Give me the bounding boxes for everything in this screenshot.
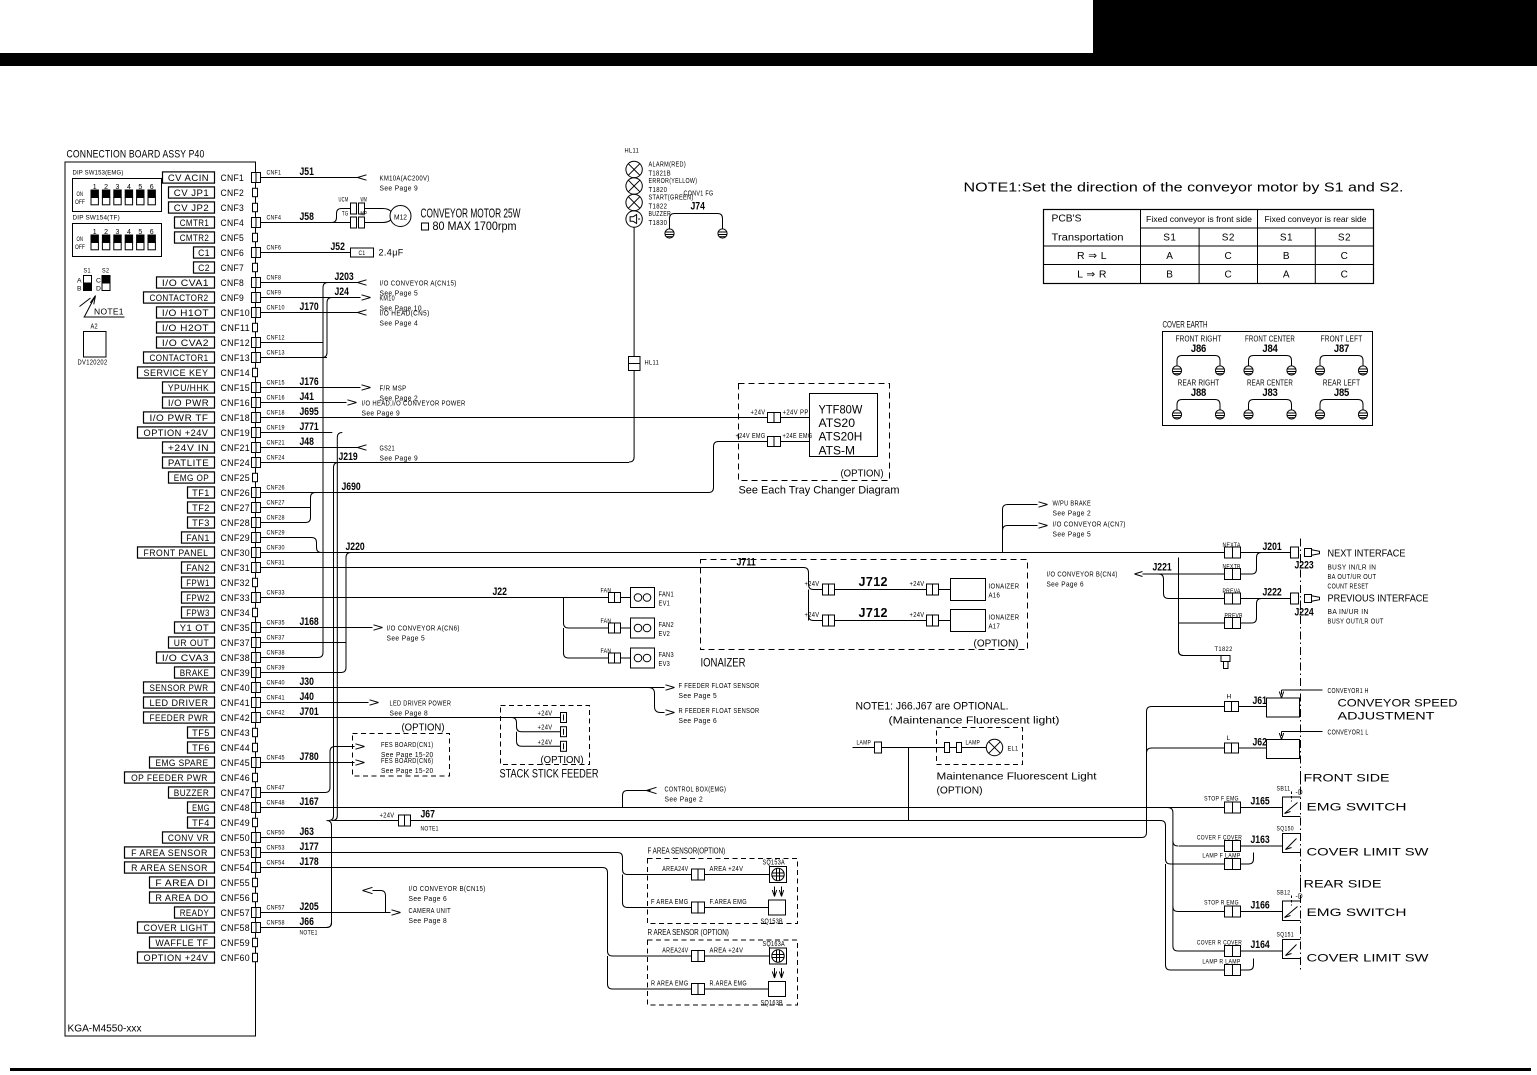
svg-text:FES BOARD(CN6): FES BOARD(CN6) xyxy=(381,758,434,765)
svg-text:EMG: EMG xyxy=(192,803,210,813)
svg-text:(OPTION): (OPTION) xyxy=(402,722,445,734)
svg-text:+24V IN: +24V IN xyxy=(168,443,209,453)
svg-text:I/O PWR: I/O PWR xyxy=(168,398,209,408)
svg-text:CONVEYOR SPEED: CONVEYOR SPEED xyxy=(1338,698,1458,710)
svg-text:CNF21: CNF21 xyxy=(221,443,251,454)
svg-text:KGA-M4550-xxx: KGA-M4550-xxx xyxy=(68,1024,142,1035)
svg-text:FPW2: FPW2 xyxy=(186,593,210,603)
svg-text:KM10A(AC200V): KM10A(AC200V) xyxy=(380,174,430,183)
svg-text:SB12: SB12 xyxy=(1277,890,1291,897)
svg-text:J86: J86 xyxy=(1191,343,1206,355)
svg-text:B: B xyxy=(1283,251,1290,262)
svg-text:See Page 9: See Page 9 xyxy=(362,409,401,418)
svg-text:CNF39: CNF39 xyxy=(221,668,251,679)
svg-text:CNF32: CNF32 xyxy=(221,578,251,589)
svg-text:CNF12: CNF12 xyxy=(267,335,285,342)
svg-text:ON: ON xyxy=(77,236,84,243)
svg-text:CNF13: CNF13 xyxy=(267,350,285,357)
svg-text:J85: J85 xyxy=(1334,387,1349,399)
svg-text:CNF15: CNF15 xyxy=(221,383,251,394)
svg-text:J67: J67 xyxy=(421,809,435,821)
svg-text:M12: M12 xyxy=(394,215,407,222)
svg-text:CNF16: CNF16 xyxy=(221,398,251,409)
svg-text:A16: A16 xyxy=(989,591,1001,600)
svg-text:CNF57: CNF57 xyxy=(267,905,285,912)
svg-text:R AREA EMG: R AREA EMG xyxy=(651,981,689,988)
svg-text:TF6: TF6 xyxy=(192,743,210,753)
svg-text:NOTE1: J66.J67 are OPTIONAL.: NOTE1: J66.J67 are OPTIONAL. xyxy=(856,701,1009,713)
svg-text:J41: J41 xyxy=(300,391,314,403)
svg-text:I/O PWR TF: I/O PWR TF xyxy=(150,413,209,423)
svg-text:CNF57: CNF57 xyxy=(221,908,251,919)
svg-text:SQ163A: SQ163A xyxy=(763,941,786,948)
svg-text:+24V EMG: +24V EMG xyxy=(736,433,766,440)
svg-text:CNF37: CNF37 xyxy=(267,635,285,642)
svg-text:I/O CONVEYOR B(CN15): I/O CONVEYOR B(CN15) xyxy=(409,884,486,893)
svg-text:CAMERA UNIT: CAMERA UNIT xyxy=(409,906,452,915)
svg-text:J712: J712 xyxy=(859,606,888,620)
svg-text:CNF34: CNF34 xyxy=(221,608,251,619)
svg-text:J40: J40 xyxy=(300,691,314,703)
svg-text:See Page 8: See Page 8 xyxy=(409,916,448,925)
svg-text:B: B xyxy=(77,286,82,293)
svg-text:CNF18: CNF18 xyxy=(267,410,285,417)
svg-text:CNF11: CNF11 xyxy=(221,323,251,334)
svg-text:CNF59: CNF59 xyxy=(221,938,251,949)
svg-text:CNF47: CNF47 xyxy=(267,785,285,792)
svg-text:A: A xyxy=(1283,270,1290,281)
svg-text:T1820: T1820 xyxy=(649,187,668,194)
svg-text:NEXT INTERFACE: NEXT INTERFACE xyxy=(1328,548,1406,560)
svg-text:CNF41: CNF41 xyxy=(267,695,285,702)
svg-text:UR OUT: UR OUT xyxy=(174,638,210,648)
svg-text:J201: J201 xyxy=(1263,541,1282,553)
svg-text:CNF28: CNF28 xyxy=(267,515,285,522)
svg-text:CNF8: CNF8 xyxy=(267,275,282,282)
svg-text:A2: A2 xyxy=(91,324,99,331)
svg-text:FAN1: FAN1 xyxy=(659,590,674,599)
svg-text:AREA24V: AREA24V xyxy=(662,948,688,955)
svg-text:F.AREA EMG: F.AREA EMG xyxy=(710,899,748,906)
svg-text:H: H xyxy=(1227,694,1232,701)
svg-text:BUSY IN/LR IN: BUSY IN/LR IN xyxy=(1328,565,1377,572)
svg-text:CNF40: CNF40 xyxy=(221,683,251,694)
svg-text:J205: J205 xyxy=(300,901,319,913)
svg-text:J221: J221 xyxy=(1153,562,1172,574)
svg-text:CV JP1: CV JP1 xyxy=(174,188,209,198)
svg-text:J167: J167 xyxy=(300,796,319,808)
svg-text:R.AREA EMG: R.AREA EMG xyxy=(710,981,748,988)
svg-text:Y1 OT: Y1 OT xyxy=(180,623,210,633)
svg-text:J712: J712 xyxy=(859,575,888,589)
svg-text:T1822: T1822 xyxy=(1215,646,1233,653)
svg-text:J63: J63 xyxy=(300,826,314,838)
svg-text:WM: WM xyxy=(361,197,368,204)
svg-text:CONVEYOR1 L: CONVEYOR1 L xyxy=(1328,730,1369,737)
svg-text:CNF12: CNF12 xyxy=(221,338,251,349)
svg-text:+24V: +24V xyxy=(751,410,766,417)
svg-text:READY: READY xyxy=(180,908,210,918)
svg-text:TG: TG xyxy=(342,211,349,218)
svg-text:CMTR1: CMTR1 xyxy=(180,218,210,228)
svg-text:FEEDER PWR: FEEDER PWR xyxy=(150,713,209,723)
svg-text:J62: J62 xyxy=(1253,737,1267,749)
svg-text:IONAIZER: IONAIZER xyxy=(989,613,1020,622)
svg-text:OPTION +24V: OPTION +24V xyxy=(144,428,209,438)
svg-text:LED DRIVER: LED DRIVER xyxy=(150,698,209,708)
svg-text:CNF48: CNF48 xyxy=(267,800,285,807)
svg-text:-D: -D xyxy=(1296,894,1304,901)
svg-text:CV JP2: CV JP2 xyxy=(174,203,209,213)
svg-text:CNF18: CNF18 xyxy=(221,413,251,424)
svg-text:CNF42: CNF42 xyxy=(267,710,285,717)
svg-text:J222: J222 xyxy=(1263,587,1282,599)
svg-text:CNF50: CNF50 xyxy=(267,830,285,837)
svg-text:CNF47: CNF47 xyxy=(221,788,251,799)
svg-text:COVER LIMIT SW: COVER LIMIT SW xyxy=(1307,847,1430,859)
svg-text:EMG SPARE: EMG SPARE xyxy=(155,758,208,768)
svg-text:FAN2: FAN2 xyxy=(186,563,210,573)
svg-text:IONAIZER: IONAIZER xyxy=(989,582,1020,591)
svg-text:J224: J224 xyxy=(1295,607,1315,619)
svg-text:CNF27: CNF27 xyxy=(267,500,285,507)
svg-text:CNF25: CNF25 xyxy=(221,473,251,484)
svg-text:J51: J51 xyxy=(300,166,314,178)
svg-text:AREA +24V: AREA +24V xyxy=(710,866,744,873)
svg-text:CNF30: CNF30 xyxy=(267,545,285,552)
svg-text:ERROR(YELLOW): ERROR(YELLOW) xyxy=(649,178,698,185)
svg-text:CNF54: CNF54 xyxy=(221,863,251,874)
svg-text:J165: J165 xyxy=(1251,796,1270,808)
svg-text:FAN1: FAN1 xyxy=(186,533,210,543)
svg-text:F AREA DI: F AREA DI xyxy=(155,878,208,888)
svg-text:CNF35: CNF35 xyxy=(221,623,251,634)
svg-text:See Page 2: See Page 2 xyxy=(665,795,704,804)
svg-text:J163: J163 xyxy=(1251,834,1270,846)
svg-text:+24V: +24V xyxy=(910,581,925,588)
svg-text:I/O CONVEYOR A(CN7): I/O CONVEYOR A(CN7) xyxy=(1053,520,1126,529)
svg-text:NOTE1: NOTE1 xyxy=(300,930,318,937)
svg-text:AREA24V: AREA24V xyxy=(662,866,688,873)
svg-text:J711: J711 xyxy=(737,557,756,569)
svg-text:+24V: +24V xyxy=(805,612,820,619)
svg-text:J30: J30 xyxy=(300,676,314,688)
svg-text:T1821B: T1821B xyxy=(649,171,672,178)
svg-text:I/O CVA1: I/O CVA1 xyxy=(162,278,209,288)
svg-text:STOP R EMG: STOP R EMG xyxy=(1204,900,1239,907)
svg-text:(OPTION): (OPTION) xyxy=(541,754,584,766)
svg-text:CNF4: CNF4 xyxy=(221,218,245,229)
svg-text:J74: J74 xyxy=(691,201,706,213)
svg-text:CONTACTOR1: CONTACTOR1 xyxy=(150,353,209,363)
svg-text:S2: S2 xyxy=(1222,233,1235,244)
svg-text:COVER EARTH: COVER EARTH xyxy=(1163,320,1208,331)
svg-text:C1: C1 xyxy=(359,250,366,257)
svg-text:CNF46: CNF46 xyxy=(221,773,251,784)
svg-text:CNF29: CNF29 xyxy=(221,533,251,544)
svg-text:(OPTION): (OPTION) xyxy=(841,468,884,480)
svg-text:CNF9: CNF9 xyxy=(221,293,245,304)
svg-text:F AREA SENSOR: F AREA SENSOR xyxy=(131,848,208,858)
svg-text:WAFFLE TF: WAFFLE TF xyxy=(155,938,208,948)
svg-text:See Page 9: See Page 9 xyxy=(380,184,419,193)
svg-text:TF1: TF1 xyxy=(192,488,210,498)
svg-text:J83: J83 xyxy=(1262,387,1277,399)
svg-text:CNF16: CNF16 xyxy=(267,395,285,402)
svg-text:CNF26: CNF26 xyxy=(267,485,285,492)
svg-text:CNF1: CNF1 xyxy=(221,173,245,184)
svg-text:CONVEYOR1 H: CONVEYOR1 H xyxy=(1328,688,1369,695)
svg-text:2.4μF: 2.4μF xyxy=(379,248,404,258)
svg-text:CNF54: CNF54 xyxy=(267,860,285,867)
svg-text:See Page 4: See Page 4 xyxy=(380,319,419,328)
svg-text:FRONT SIDE: FRONT SIDE xyxy=(1304,773,1390,785)
svg-text:BRAKE: BRAKE xyxy=(180,668,210,678)
svg-text:SQ151: SQ151 xyxy=(1277,932,1294,939)
svg-text:COVER LIGHT: COVER LIGHT xyxy=(144,923,209,933)
svg-text:CNF31: CNF31 xyxy=(267,560,285,567)
svg-text:J84: J84 xyxy=(1262,343,1278,355)
svg-text:+24V: +24V xyxy=(805,581,820,588)
svg-text:ATS20: ATS20 xyxy=(819,416,856,430)
svg-text:SQ150: SQ150 xyxy=(1277,826,1294,833)
svg-text:UCM: UCM xyxy=(339,197,349,204)
svg-text:See Page 6: See Page 6 xyxy=(409,894,448,903)
svg-text:Fixed conveyor is front side: Fixed conveyor is front side xyxy=(1146,214,1252,224)
svg-text:+24V: +24V xyxy=(380,813,395,820)
svg-text:R AREA DO: R AREA DO xyxy=(155,893,208,903)
svg-text:J66: J66 xyxy=(300,916,314,928)
svg-text:F FEEDER FLOAT SENSOR: F FEEDER FLOAT SENSOR xyxy=(679,681,760,690)
svg-text:NOTE1: NOTE1 xyxy=(421,826,439,833)
svg-text:C: C xyxy=(1224,270,1232,281)
svg-text:BUZZER: BUZZER xyxy=(649,211,672,218)
svg-text:R AREA SENSOR (OPTION): R AREA SENSOR (OPTION) xyxy=(648,928,730,937)
svg-text:LAMP: LAMP xyxy=(857,740,872,747)
svg-text:CNF33: CNF33 xyxy=(221,593,251,604)
svg-text:PCB'S: PCB'S xyxy=(1052,214,1082,225)
svg-text:ATS20H: ATS20H xyxy=(819,430,863,444)
svg-text:CNF48: CNF48 xyxy=(221,803,251,814)
svg-text:CNF60: CNF60 xyxy=(221,953,251,964)
svg-text:FAN2: FAN2 xyxy=(659,620,674,629)
svg-text:J219: J219 xyxy=(339,451,358,463)
svg-text:EMG OP: EMG OP xyxy=(174,473,209,483)
svg-text:J220: J220 xyxy=(346,541,365,553)
svg-text:R ⇒ L: R ⇒ L xyxy=(1077,250,1107,262)
svg-text:CNF19: CNF19 xyxy=(267,425,285,432)
svg-text:+24V PP: +24V PP xyxy=(783,410,809,417)
svg-text:J170: J170 xyxy=(300,301,319,313)
svg-text:L ⇒ R: L ⇒ R xyxy=(1077,269,1107,281)
svg-text:CNF45: CNF45 xyxy=(221,758,251,769)
svg-text:CNF41: CNF41 xyxy=(221,698,251,709)
svg-text:J690: J690 xyxy=(342,481,361,493)
svg-text:S1: S1 xyxy=(84,268,91,275)
svg-text:OPTION +24V: OPTION +24V xyxy=(144,953,209,963)
svg-text:NOTE1:Set the direction of the: NOTE1:Set the direction of the conveyor … xyxy=(964,181,1404,195)
svg-text:CNF10: CNF10 xyxy=(267,305,285,312)
svg-text:T1822: T1822 xyxy=(649,204,668,211)
svg-text:J223: J223 xyxy=(1295,560,1314,572)
svg-text:I/O CVA3: I/O CVA3 xyxy=(162,653,209,663)
svg-text:CNF27: CNF27 xyxy=(221,503,251,514)
svg-text:BA IN/UR IN: BA IN/UR IN xyxy=(1328,609,1369,616)
svg-text:I/O HEAD(CN5): I/O HEAD(CN5) xyxy=(380,309,430,318)
svg-text:ADJUSTMENT: ADJUSTMENT xyxy=(1338,711,1435,723)
svg-text:Transportation: Transportation xyxy=(1052,233,1124,244)
svg-text:CNF15: CNF15 xyxy=(267,380,285,387)
svg-text:(Maintenance Fluorescent light: (Maintenance Fluorescent light) xyxy=(889,715,1060,727)
svg-text:CNF24: CNF24 xyxy=(267,455,285,462)
svg-text:W/PU BRAKE: W/PU BRAKE xyxy=(1053,499,1092,508)
svg-text:J695: J695 xyxy=(300,406,319,418)
svg-text:J177: J177 xyxy=(300,841,319,853)
svg-text:START(GREEN): START(GREEN) xyxy=(649,195,694,202)
svg-text:CNF29: CNF29 xyxy=(267,530,285,537)
svg-text:D: D xyxy=(96,286,101,293)
svg-text:A: A xyxy=(77,278,82,285)
svg-text:PREVIOUS INTERFACE: PREVIOUS INTERFACE xyxy=(1328,593,1429,605)
svg-text:PATLITE: PATLITE xyxy=(168,458,209,468)
svg-text:CNF13: CNF13 xyxy=(221,353,251,364)
svg-text:S2: S2 xyxy=(102,268,109,275)
svg-text:+24V: +24V xyxy=(538,739,553,746)
svg-text:I/O CONVEYOR A(CN15): I/O CONVEYOR A(CN15) xyxy=(380,279,457,288)
svg-text:FPW3: FPW3 xyxy=(186,608,210,618)
svg-text:C: C xyxy=(1341,251,1349,262)
svg-text:B: B xyxy=(1166,270,1173,281)
svg-text:J780: J780 xyxy=(300,751,319,763)
svg-text:EV2: EV2 xyxy=(659,629,671,638)
svg-text:CNF39: CNF39 xyxy=(267,665,285,672)
svg-text:CNF58: CNF58 xyxy=(221,923,251,934)
svg-text:F AREA EMG: F AREA EMG xyxy=(651,899,689,906)
svg-text:See Page 6: See Page 6 xyxy=(1047,582,1085,589)
svg-text:COUNT RESET: COUNT RESET xyxy=(1328,584,1369,591)
svg-text:See Page 6: See Page 6 xyxy=(679,716,718,725)
svg-text:REAR SIDE: REAR SIDE xyxy=(1304,879,1382,891)
svg-text:NOTE1: NOTE1 xyxy=(94,307,124,317)
svg-text:TF4: TF4 xyxy=(192,818,210,828)
svg-text:J58: J58 xyxy=(300,211,314,223)
svg-text:S2: S2 xyxy=(1338,233,1351,244)
svg-text:See Page 15-20: See Page 15-20 xyxy=(381,768,434,775)
svg-text:CNF7: CNF7 xyxy=(221,263,245,274)
svg-text:CNF21: CNF21 xyxy=(267,440,285,447)
svg-text:CNF4: CNF4 xyxy=(267,215,282,222)
svg-text:J22: J22 xyxy=(493,586,507,598)
svg-text:I/O CVA2: I/O CVA2 xyxy=(162,338,209,348)
svg-text:C2: C2 xyxy=(198,263,210,273)
svg-text:CNF49: CNF49 xyxy=(221,818,251,829)
svg-text:-D: -D xyxy=(1296,790,1304,797)
svg-text:CONNECTION BOARD ASSY P40: CONNECTION BOARD ASSY P40 xyxy=(67,149,205,161)
svg-text:J88: J88 xyxy=(1191,387,1206,399)
svg-text:EMG SWITCH: EMG SWITCH xyxy=(1307,907,1407,919)
svg-text:CNF38: CNF38 xyxy=(221,653,251,664)
svg-text:KM10: KM10 xyxy=(380,294,395,303)
svg-text:HL11: HL11 xyxy=(625,148,640,155)
svg-text:L: L xyxy=(1227,735,1231,742)
svg-text:See Page 8: See Page 8 xyxy=(390,709,429,718)
svg-text:I/O HEAD,I/O CONVEYOR POWER: I/O HEAD,I/O CONVEYOR POWER xyxy=(362,399,466,408)
svg-text:A17: A17 xyxy=(989,622,1001,631)
svg-text:CNF42: CNF42 xyxy=(221,713,251,724)
svg-text:S1: S1 xyxy=(1163,233,1176,244)
svg-text:EV1: EV1 xyxy=(659,599,671,608)
svg-text:F/R MSP: F/R MSP xyxy=(380,384,407,393)
svg-text:DIP SW154(TF): DIP SW154(TF) xyxy=(73,215,120,222)
svg-text:CONV VR: CONV VR xyxy=(168,833,209,843)
svg-text:IONAIZER: IONAIZER xyxy=(701,658,746,670)
svg-text:ATS-M: ATS-M xyxy=(819,443,856,457)
svg-text:Maintenance Fluorescent Light: Maintenance Fluorescent Light xyxy=(937,771,1097,783)
svg-text:I/O H1OT: I/O H1OT xyxy=(162,308,209,318)
svg-text:J61: J61 xyxy=(1253,695,1267,707)
svg-text:TF2: TF2 xyxy=(192,503,210,513)
svg-text:See Page 2: See Page 2 xyxy=(1053,509,1092,518)
svg-text:CNF31: CNF31 xyxy=(221,563,251,574)
svg-text:CNF50: CNF50 xyxy=(221,833,251,844)
svg-text:YPU/HHK: YPU/HHK xyxy=(168,383,209,393)
svg-text:BA OUT/UR OUT: BA OUT/UR OUT xyxy=(1328,574,1377,581)
svg-text:J701: J701 xyxy=(300,706,319,718)
svg-text:TF3: TF3 xyxy=(192,518,210,528)
svg-text:HL11: HL11 xyxy=(645,360,660,367)
svg-text:CNF24: CNF24 xyxy=(221,458,251,469)
svg-text:CNF6: CNF6 xyxy=(221,248,245,259)
svg-text:CNF37: CNF37 xyxy=(221,638,251,649)
svg-text:TF5: TF5 xyxy=(192,728,210,738)
svg-text:I/O H2OT: I/O H2OT xyxy=(162,323,209,333)
svg-text:OP FEEDER PWR: OP FEEDER PWR xyxy=(131,773,208,783)
svg-text:J178: J178 xyxy=(300,856,319,868)
svg-text:CNF5: CNF5 xyxy=(221,233,245,244)
svg-text:T1830: T1830 xyxy=(649,220,668,227)
svg-text:STACK STICK FEEDER: STACK STICK FEEDER xyxy=(500,769,599,781)
svg-text:CNF14: CNF14 xyxy=(221,368,251,379)
svg-text:(OPTION): (OPTION) xyxy=(974,638,1019,650)
svg-text:ALARM(RED): ALARM(RED) xyxy=(649,162,687,169)
svg-text:A: A xyxy=(1166,251,1173,262)
svg-text:I/O CONVEYOR B(CN4): I/O CONVEYOR B(CN4) xyxy=(1047,572,1118,579)
svg-text:CNF10: CNF10 xyxy=(221,308,251,319)
svg-text:Fixed conveyor is rear side: Fixed conveyor is rear side xyxy=(1265,214,1367,224)
svg-text:See Page 5: See Page 5 xyxy=(387,634,426,643)
svg-text:FPW1: FPW1 xyxy=(186,578,210,588)
svg-text:MP: MP xyxy=(361,211,368,218)
svg-text:CV ACIN: CV ACIN xyxy=(168,173,209,183)
svg-text:R FEEDER FLOAT SENSOR: R FEEDER FLOAT SENSOR xyxy=(679,706,760,715)
svg-text:OFF: OFF xyxy=(75,199,85,206)
svg-text:FRONT PANEL: FRONT PANEL xyxy=(144,548,209,558)
svg-text:BUZZER: BUZZER xyxy=(174,788,209,798)
svg-text:CNF45: CNF45 xyxy=(267,755,285,762)
svg-text:+24V: +24V xyxy=(538,711,553,718)
svg-text:C: C xyxy=(96,278,101,285)
svg-text:CNF53: CNF53 xyxy=(267,845,285,852)
svg-text:J771: J771 xyxy=(300,421,319,433)
svg-text:CONTACTOR2: CONTACTOR2 xyxy=(150,293,209,303)
svg-text:SB11: SB11 xyxy=(1277,786,1291,793)
svg-text:See Page 5: See Page 5 xyxy=(679,691,718,700)
svg-text:+24V: +24V xyxy=(538,725,553,732)
svg-text:S1: S1 xyxy=(1280,233,1293,244)
svg-text:CNF19: CNF19 xyxy=(221,428,251,439)
svg-text:FES BOARD(CN1): FES BOARD(CN1) xyxy=(381,742,434,749)
svg-text:J168: J168 xyxy=(300,616,319,628)
